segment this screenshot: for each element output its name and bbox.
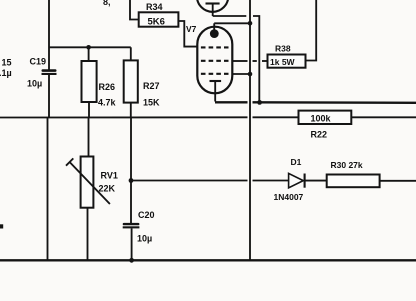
node junction anode line bbox=[248, 21, 253, 26]
potentiometer RV1 bbox=[66, 157, 110, 208]
svg-text:22K: 22K bbox=[99, 183, 116, 193]
wire grid2 to R38 bbox=[232, 60, 267, 62]
node junction grid3 bbox=[248, 72, 253, 77]
wire bbox=[87, 208, 89, 261]
wire signal line to D1 bbox=[131, 180, 289, 182]
resistor R26 bbox=[82, 61, 97, 102]
resistor R34 bbox=[139, 12, 179, 26]
wire bbox=[213, 15, 247, 17]
svg-text:RV1: RV1 bbox=[101, 171, 118, 181]
wire bbox=[88, 47, 90, 61]
svg-text:15: 15 bbox=[2, 58, 12, 68]
capacitor C20 bbox=[123, 223, 140, 229]
svg-text:R38: R38 bbox=[275, 44, 291, 54]
wire bottom bus bbox=[0, 259, 416, 261]
node junction on HT bus bbox=[257, 100, 262, 105]
wire bbox=[130, 0, 139, 20]
wire bbox=[48, 75, 50, 118]
svg-text:5K6: 5K6 bbox=[148, 16, 165, 27]
wire bbox=[214, 22, 250, 24]
svg-text:10µ: 10µ bbox=[27, 79, 42, 89]
resistor R22 bbox=[299, 111, 352, 124]
svg-text:10µ: 10µ bbox=[137, 234, 152, 244]
svg-text:R22: R22 bbox=[311, 129, 328, 139]
resistor R38 bbox=[268, 55, 306, 68]
svg-text:R34: R34 bbox=[146, 2, 163, 12]
node clipped component at left edge bbox=[0, 224, 3, 228]
svg-text:.1µ: .1µ bbox=[0, 68, 12, 78]
wire bbox=[131, 228, 133, 260]
tube V6 (upper, clipped) envelope bbox=[197, 0, 228, 12]
resistor R30 bbox=[327, 175, 380, 188]
node junction at bottom bus bbox=[129, 258, 134, 263]
wire bbox=[306, 0, 317, 61]
wire bbox=[88, 118, 90, 157]
wire bbox=[178, 21, 197, 47]
svg-text:R27: R27 bbox=[143, 81, 160, 91]
wire HT bus bbox=[215, 101, 416, 104]
svg-text:100k: 100k bbox=[311, 113, 332, 123]
svg-text:1N4007: 1N4007 bbox=[274, 192, 304, 202]
node junction C20 / D1 branch bbox=[129, 178, 134, 183]
svg-text:V7: V7 bbox=[186, 24, 197, 34]
svg-text:4.7k: 4.7k bbox=[98, 98, 117, 108]
tube V7 grid 2 (dashed) bbox=[201, 60, 229, 62]
tube V7 envelope bbox=[197, 27, 232, 94]
tube V7 grid 1 (dashed) bbox=[201, 46, 229, 48]
tube V7 grid 3 (dashed) bbox=[201, 73, 229, 75]
svg-text:8,: 8, bbox=[103, 0, 111, 7]
svg-text:C19: C19 bbox=[30, 57, 47, 67]
wire bbox=[130, 118, 132, 224]
wire bus to 100k bbox=[0, 116, 299, 118]
wire grid3 to rail bbox=[232, 73, 250, 75]
svg-text:15K: 15K bbox=[143, 98, 160, 108]
node junction R26 top bbox=[86, 45, 91, 50]
svg-text:R30 27k: R30 27k bbox=[331, 160, 363, 170]
tube V7 anode bbox=[210, 23, 219, 38]
wire bbox=[47, 118, 49, 261]
svg-text:D1: D1 bbox=[291, 157, 302, 167]
wire bbox=[305, 180, 327, 182]
wire vertical rail bbox=[249, 0, 251, 260]
wire bbox=[48, 0, 50, 70]
diode D1 bbox=[289, 173, 305, 187]
resistor R27 bbox=[124, 60, 138, 102]
wire bbox=[253, 16, 259, 102]
wire bbox=[49, 46, 131, 48]
capacitor C19 bbox=[42, 69, 57, 75]
tube V6 cathode bbox=[206, 4, 220, 17]
svg-text:1k 5W: 1k 5W bbox=[270, 57, 296, 67]
svg-text:R26: R26 bbox=[99, 82, 116, 92]
svg-text:C20: C20 bbox=[138, 210, 155, 220]
wire bbox=[130, 47, 132, 60]
wire bbox=[130, 103, 132, 118]
tube V7 cathode bbox=[210, 81, 222, 102]
wire bbox=[380, 180, 416, 182]
wire bbox=[351, 116, 416, 118]
wire bbox=[88, 102, 90, 118]
